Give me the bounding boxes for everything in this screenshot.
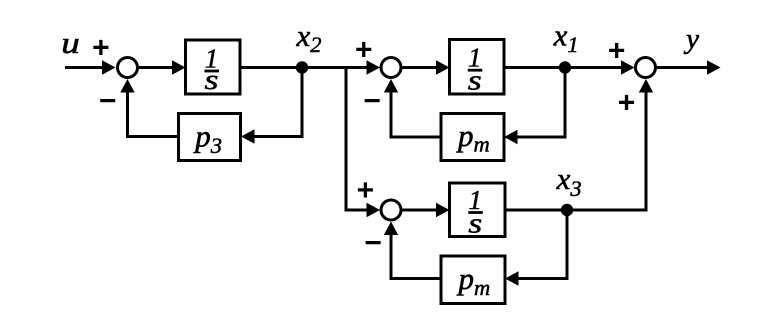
wire x1 down and left into Pm1 block [504, 68, 565, 145]
svg-text:+: + [92, 31, 110, 64]
integrator block B2 (1/s) [450, 40, 505, 95]
wire x2 down and left into p3 block [241, 68, 302, 144]
svg-text:s: s [205, 65, 219, 96]
svg-text:−: − [363, 84, 381, 117]
summing junction S1 [118, 58, 138, 78]
gain block Pm1 [441, 114, 504, 161]
wire P3 left and up into S1 [120, 79, 178, 137]
svg-text:+: + [608, 34, 626, 67]
wire x3 down and left into Pm2 block [505, 210, 567, 286]
summing junction S3 [381, 200, 401, 220]
svg-text:−: − [99, 85, 117, 118]
svg-text:+: + [618, 86, 636, 119]
wire branch from main line down and right into S3 [346, 68, 380, 218]
svg-text:+: + [357, 174, 375, 207]
svg-text:u: u [61, 25, 80, 60]
wire B3 right and up into S4 [505, 79, 653, 210]
node x3 [561, 204, 573, 216]
gain block P3 [179, 114, 241, 161]
svg-text:y: y [683, 23, 699, 55]
value label 1/s in B1 [205, 43, 220, 96]
svg-text:s: s [468, 65, 482, 96]
node x1 [559, 61, 571, 73]
value label 1/s in B3 [468, 185, 483, 240]
gain block Pm2 [441, 256, 505, 304]
integrator block B1 (1/s) [186, 40, 241, 94]
summing junction S4 (output) [636, 58, 656, 78]
wire input u arrow [65, 60, 116, 74]
wire B2 to summing junction S4 [504, 60, 635, 74]
wire B1 to summing junction S2 [240, 60, 380, 74]
svg-text:s: s [468, 209, 482, 240]
value label 1/s in B2 [468, 43, 483, 97]
wire S2 to integrator block B2 [403, 60, 450, 74]
svg-text:+: + [355, 33, 373, 66]
summing junction S2 [381, 58, 401, 78]
wire S3 to integrator block B3 [403, 203, 450, 217]
wire Pm2 left and up into S3 [384, 222, 441, 279]
wire S1 to integrator block B1 [139, 60, 186, 74]
integrator block B3 (1/s) [450, 183, 506, 237]
svg-text:−: − [364, 227, 382, 260]
wire output y arrow [657, 60, 721, 74]
node x2 [296, 61, 308, 73]
wire Pm1 left and up into S2 [384, 79, 441, 137]
